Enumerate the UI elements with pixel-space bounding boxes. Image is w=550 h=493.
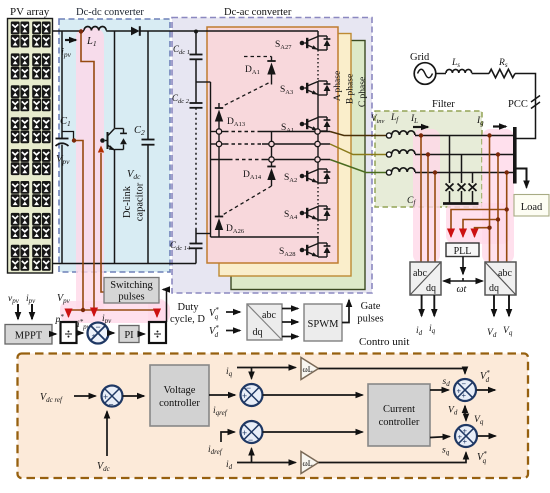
wire phase 1 to PCC [415,135,513,137]
Voltage controller box [150,365,209,426]
svg-text:SPWM: SPWM [308,319,340,330]
abc-dq current transform box [410,262,441,295]
diode DA26 [215,216,223,218]
sq output to sum5 [430,437,450,438]
wire PLL feed 1 [451,210,507,233]
wire phase A to filter [330,132,386,136]
svg-text:÷: ÷ [153,327,161,343]
svg-text:PV array: PV array [10,6,50,18]
svg-text:Dc-dc converter: Dc-dc converter [76,7,144,18]
dashed link DA14 to DA26 [223,186,272,215]
diode DA1 [244,56,272,58]
svg-text:Switching: Switching [110,280,153,291]
Current controller box [368,384,430,446]
svg-text:Voltage: Voltage [164,385,196,396]
ipv arrow on rail [65,39,76,41]
pink highlight band PLL feed wires [446,203,510,244]
wire current sense a [420,136,422,263]
arrows into dq-abc [226,311,240,313]
inductor Ls [446,69,472,73]
svg-text:V*d: V*d [480,369,490,384]
summing junction 2 [241,384,263,406]
svg-text:−: − [109,400,114,410]
wire rail corner to SA27 [317,31,319,36]
wire PLL feed 3 [475,228,490,232]
Dc-ac converter region box [172,18,372,294]
switch SA28 [300,243,331,257]
wire SA1-SA2 [317,131,319,169]
wire rail to dc-ac [141,30,319,32]
C phase sheet [231,41,365,290]
filter input terminals [386,133,391,138]
PLL box [446,243,479,257]
arrow multiplier to PI [109,332,115,334]
svg-text:Current: Current [383,404,415,415]
svg-text:controller: controller [159,398,200,409]
abc-dq voltage transform box [485,262,516,295]
divider block 2 [149,322,166,343]
arrow Vdcref to sum1 [74,395,96,397]
svg-text:abc: abc [413,268,427,279]
wire rail after L1 [106,30,131,32]
id branch into sum3 [251,449,253,463]
summing junction 4 [454,379,476,401]
arrow iqref to sum2 [209,394,235,396]
summing junction 5 [455,425,477,447]
svg-text:Grid: Grid [410,52,430,63]
PI box [119,326,139,343]
capacitor Cdc1 [195,31,197,55]
node terminals on rows [216,129,221,134]
svg-text:+: + [92,331,97,341]
node row phase B [211,143,226,145]
pink highlight band mppt row [60,301,170,323]
arrows abc to SPWM [282,308,298,310]
Vd feed arrow up [464,406,466,414]
switch SA1 [300,117,331,131]
svg-text:−: − [462,380,467,389]
transistor S (boost IGBT) [114,31,116,128]
wire gate drive (brown) [101,153,104,292]
wt distribution double arrow [462,278,464,281]
capacitor Cf symbols [446,184,454,192]
wL gain 2 [301,452,319,474]
svg-text:+: + [463,427,468,436]
svg-text:+: + [103,392,108,402]
wire branch cap string upper to inner column [196,81,211,83]
id iq output arrows [421,295,423,316]
dotted link SA4-SA28 [317,220,319,237]
diode DA14 [271,132,273,167]
red arrows into PLL [450,232,452,237]
pink highlight band voltage sense wires [482,129,514,263]
dashed link DA1 to DA13 [223,83,269,106]
node row phase A [211,131,226,133]
pink highlight band dc-dc sense wires [76,28,104,314]
svg-text:dq: dq [489,283,499,294]
node row phase C [211,159,230,161]
red arrow into multiplier [93,309,95,316]
capacitor Cf legs [449,136,451,184]
wire phase 2 to PCC [415,154,513,156]
svg-text:Gate: Gate [361,301,381,312]
wire phase B to filter [330,144,386,155]
inductor Lf phase 2 [392,150,415,154]
dq to abc transform box [247,304,282,340]
svg-text:+: + [463,438,468,447]
svg-text:MPPT: MPPT [15,331,43,342]
svg-text:Dc-ac converter: Dc-ac converter [224,7,292,18]
switch SA4 [300,206,331,220]
Vd Vq output arrows [493,295,495,316]
switch SA27 [300,36,331,50]
wire and arrow to Load [516,169,527,188]
svg-text:−: − [248,435,253,445]
wire voltage sense a [489,136,491,263]
wire current sense c [434,173,436,263]
svg-text:V*d: V*d [209,324,219,339]
svg-text:Filter: Filter [432,99,455,110]
wire top dc rail [53,30,85,32]
MPPT box [5,325,52,345]
svg-text:Load: Load [521,202,543,213]
wire gate pulses up into converter [342,300,349,323]
svg-text:÷: ÷ [64,327,72,343]
node ipv tap [79,29,83,33]
Load box [514,195,549,217]
svg-text:dq: dq [426,283,436,294]
wire SA3-SA1 [317,95,319,117]
Control unit region box [18,354,529,479]
PCC bus bar [513,127,517,184]
iq branch into sum2 [251,368,253,379]
PLL output arrow down [462,257,464,275]
resistor Rs [489,69,515,77]
PV array box [8,19,53,274]
svg-text:cycle, D: cycle, D [170,314,205,325]
summing junction 3 [241,421,263,443]
svg-text:+: + [242,428,247,438]
arrow sum3 to current controller [263,431,363,433]
summing junction 1 [102,386,123,407]
dotted link SA2-SA4 [317,183,319,206]
svg-text:B phase: B phase [346,74,356,104]
wire current sense b [427,155,429,263]
svg-text:PI: PI [124,330,134,341]
capacitor Cdc14 [195,228,197,244]
inductor L1 [84,27,106,31]
red arrow into divider 2 [156,310,158,317]
wire Rs to PCC drop [515,74,536,139]
pink highlight band duty arrow [148,299,166,323]
Filter region box [375,111,482,207]
dotted link SA27-SA3 [317,50,319,81]
line break slashes [531,96,540,109]
wire ipv sense (brown) [81,32,94,310]
svg-text:ωt: ωt [457,284,467,295]
Switching pulses box [104,278,159,304]
grid source [414,63,436,85]
wire voltage sense b [497,155,499,263]
svg-text:pulses: pulses [118,292,144,303]
PV array cells [11,22,51,271]
wire phase C to filter [330,160,386,173]
svg-text:controller: controller [379,417,420,428]
arrow sum2 to current controller [263,394,363,396]
Vpv tap hook [62,132,74,140]
svg-text:ωL: ωL [303,365,313,374]
Cf neutral bar [443,202,479,205]
svg-text:A phase: A phase [333,71,343,101]
sd output to sum4 [430,389,449,391]
Vq feed arrow down [465,418,467,421]
Vd* output arrow [477,389,496,391]
svg-text:PCC: PCC [508,99,528,110]
pink highlight band current sense wires [413,129,440,263]
capacitor C2 [147,31,149,140]
arrow divider1 to multiplier [77,332,84,334]
wire branch cap string to inner column [196,233,211,235]
wire Ls to Rs [472,73,489,75]
svg-text:C phase: C phase [358,77,368,107]
svg-text:Dc-link: Dc-link [122,185,133,218]
Dc-dc converter region box [59,19,170,272]
arrow sum1 to voltage controller [123,395,145,397]
wire Vpv sense (brown) [74,141,83,311]
capacitor Cdc2 [195,59,197,103]
svg-text:−: − [96,322,101,332]
node Vpv tap [72,138,76,142]
arrow PI to divider2 [139,333,145,335]
svg-text:V*q: V*q [477,450,487,465]
switch SA3 [300,81,331,95]
node Vpv branch [81,308,85,312]
wire bottom inner row [211,237,319,243]
node dc rail to capacitor string [194,30,198,34]
diode D (boost) [131,27,140,36]
svg-text:ωL: ωL [303,459,313,468]
Vq* output arrow [478,435,496,437]
wire PLL feed 2 [463,220,498,233]
svg-text:Contro unit: Contro unit [359,336,409,348]
arrow MPPT to divider1 [52,333,56,335]
arrows into MPPT [17,304,19,319]
wire Vpv distribution (brown) [69,309,158,311]
inductor Lf phase 3 [392,168,415,172]
svg-text:PLL: PLL [454,246,472,257]
svg-text:abc: abc [262,310,276,321]
wire bottom dc rail [53,263,197,265]
svg-text:capacitor: capacitor [135,182,146,221]
diode DA13 [218,103,220,108]
SPWM box [304,304,342,341]
switch SA2 [300,169,331,183]
wire phase 3 to PCC [415,172,513,174]
capacitor C1 [61,31,63,139]
svg-text:pulses: pulses [357,314,383,325]
dotted capacitor string continuation [195,108,197,228]
A phase sheet [207,27,338,263]
svg-text:V*q: V*q [209,306,219,321]
svg-text:+: + [462,392,467,401]
B phase sheet [219,34,351,277]
wire wL1 to sum4 [319,369,466,374]
divider block 1 [61,322,77,343]
svg-text:abc: abc [498,268,512,279]
wire duty feedback to switching pulses [163,290,167,323]
wire inner left vertical [210,82,212,237]
multiplier/summing circle [88,323,109,344]
wire wL2 to sum5 [319,453,467,463]
Vdc feedback arrow [106,412,108,457]
svg-text:dq: dq [253,327,263,338]
wL gain 1 [301,358,319,380]
svg-text:Duty: Duty [178,302,200,313]
wire grid to Ls [436,73,446,75]
svg-text:−: − [246,383,251,393]
red arrow into divider 1 [68,310,70,317]
wire voltage sense c [506,173,508,263]
inductor Lf phase 1 [392,131,415,135]
